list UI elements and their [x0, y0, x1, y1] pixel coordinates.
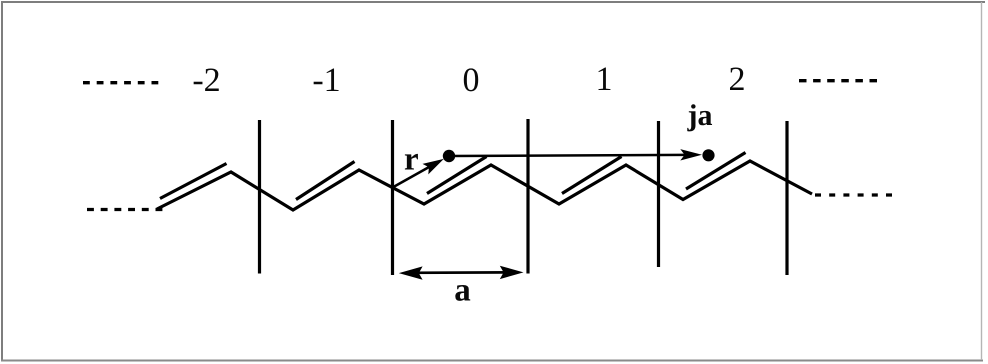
right chain ellipsis dashes	[815, 193, 893, 196]
polymer backbone zigzag chain	[157, 161, 812, 210]
double bond second line 4	[562, 157, 622, 194]
lattice translation arrowhead	[680, 149, 702, 160]
cell boundary line 4	[657, 121, 660, 267]
svg-text:r: r	[404, 142, 419, 178]
double bond second line 3	[427, 157, 487, 194]
basis atom dot at r	[443, 150, 455, 162]
lattice constant right arrowhead	[500, 266, 524, 279]
svg-text:a: a	[454, 273, 471, 309]
top-left ellipsis dashes	[83, 81, 161, 84]
svg-text:2: 2	[729, 61, 746, 98]
double bond second line 1	[160, 164, 227, 199]
frame bottom edge	[1, 360, 983, 362]
cell boundary line 3	[526, 119, 529, 274]
double bond second line 5	[686, 153, 746, 190]
vector r shaft	[393, 164, 435, 187]
svg-text:-2: -2	[192, 62, 220, 99]
atom dot at ja	[702, 149, 714, 161]
cell boundary line 1	[258, 120, 261, 274]
left chain ellipsis dashes	[87, 208, 163, 211]
svg-text:0: 0	[463, 62, 480, 99]
vector r arrowhead	[423, 159, 444, 175]
svg-text:1: 1	[596, 61, 613, 98]
cell boundary line 2	[391, 120, 394, 275]
double bond second line 2	[296, 162, 355, 200]
svg-text:ja: ja	[687, 99, 713, 132]
frame right edge	[981, 2, 983, 360]
lattice translation arrow shaft (r to ja)	[449, 155, 686, 156]
lattice constant left arrowhead	[399, 266, 423, 279]
frame left edge	[1, 1, 3, 361]
top-right ellipsis dashes	[799, 79, 877, 82]
cell boundary line 5	[785, 121, 788, 275]
frame top edge	[1, 1, 985, 3]
lattice constant double arrow shaft	[410, 271, 512, 274]
svg-text:-1: -1	[312, 62, 340, 99]
